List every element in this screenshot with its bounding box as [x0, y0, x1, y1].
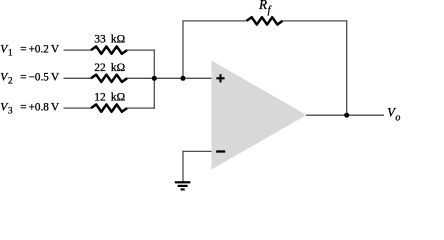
svg-text:33 kΩ: 33 kΩ	[94, 34, 125, 46]
resistor R1 zigzag	[91, 46, 127, 53]
node: junction feedback tap	[181, 76, 186, 81]
op-amp U1	[212, 61, 307, 170]
wire: output	[306, 114, 384, 116]
resistor Rf zigzag	[247, 17, 283, 24]
svg-text:V3=+0.8V: V3=+0.8V	[0, 101, 60, 115]
svg-text:V1=+0.2V: V1=+0.2V	[0, 43, 60, 57]
wire: R3 to bus	[127, 107, 155, 109]
wire: feedback left vertical	[182, 21, 184, 78]
wire: V1 lead to R1	[64, 49, 92, 51]
wire: V2 lead to R2	[64, 77, 92, 79]
wire: inverting input to ground horizontal	[182, 150, 211, 152]
node: junction output / feedback	[344, 113, 349, 118]
wire: R1 to bus	[127, 49, 155, 51]
node: junction bus / noninverting line	[152, 76, 157, 81]
wire: ground stem vertical	[182, 151, 184, 182]
pin: noninverting input plus sign	[216, 74, 224, 82]
svg-text:Rf: Rf	[258, 0, 272, 16]
svg-text:Vo: Vo	[387, 105, 400, 123]
wire: feedback right vertical	[346, 20, 348, 115]
svg-text:12 kΩ: 12 kΩ	[94, 92, 125, 104]
resistor R2 zigzag	[91, 75, 127, 82]
wire: V3 lead to R3	[64, 107, 92, 109]
pin: inverting input minus sign	[216, 150, 225, 152]
wire: feedback top right segment	[283, 20, 348, 22]
wire: R2 to noninverting input of U1	[127, 77, 212, 79]
wire: feedback top left segment	[182, 20, 246, 22]
svg-text:22 kΩ: 22 kΩ	[94, 62, 125, 74]
resistor R3 zigzag	[91, 104, 127, 111]
svg-text:V2=−0.5V: V2=−0.5V	[0, 72, 60, 86]
wire: summing bus vertical	[153, 49, 155, 108]
ground	[175, 182, 191, 189]
